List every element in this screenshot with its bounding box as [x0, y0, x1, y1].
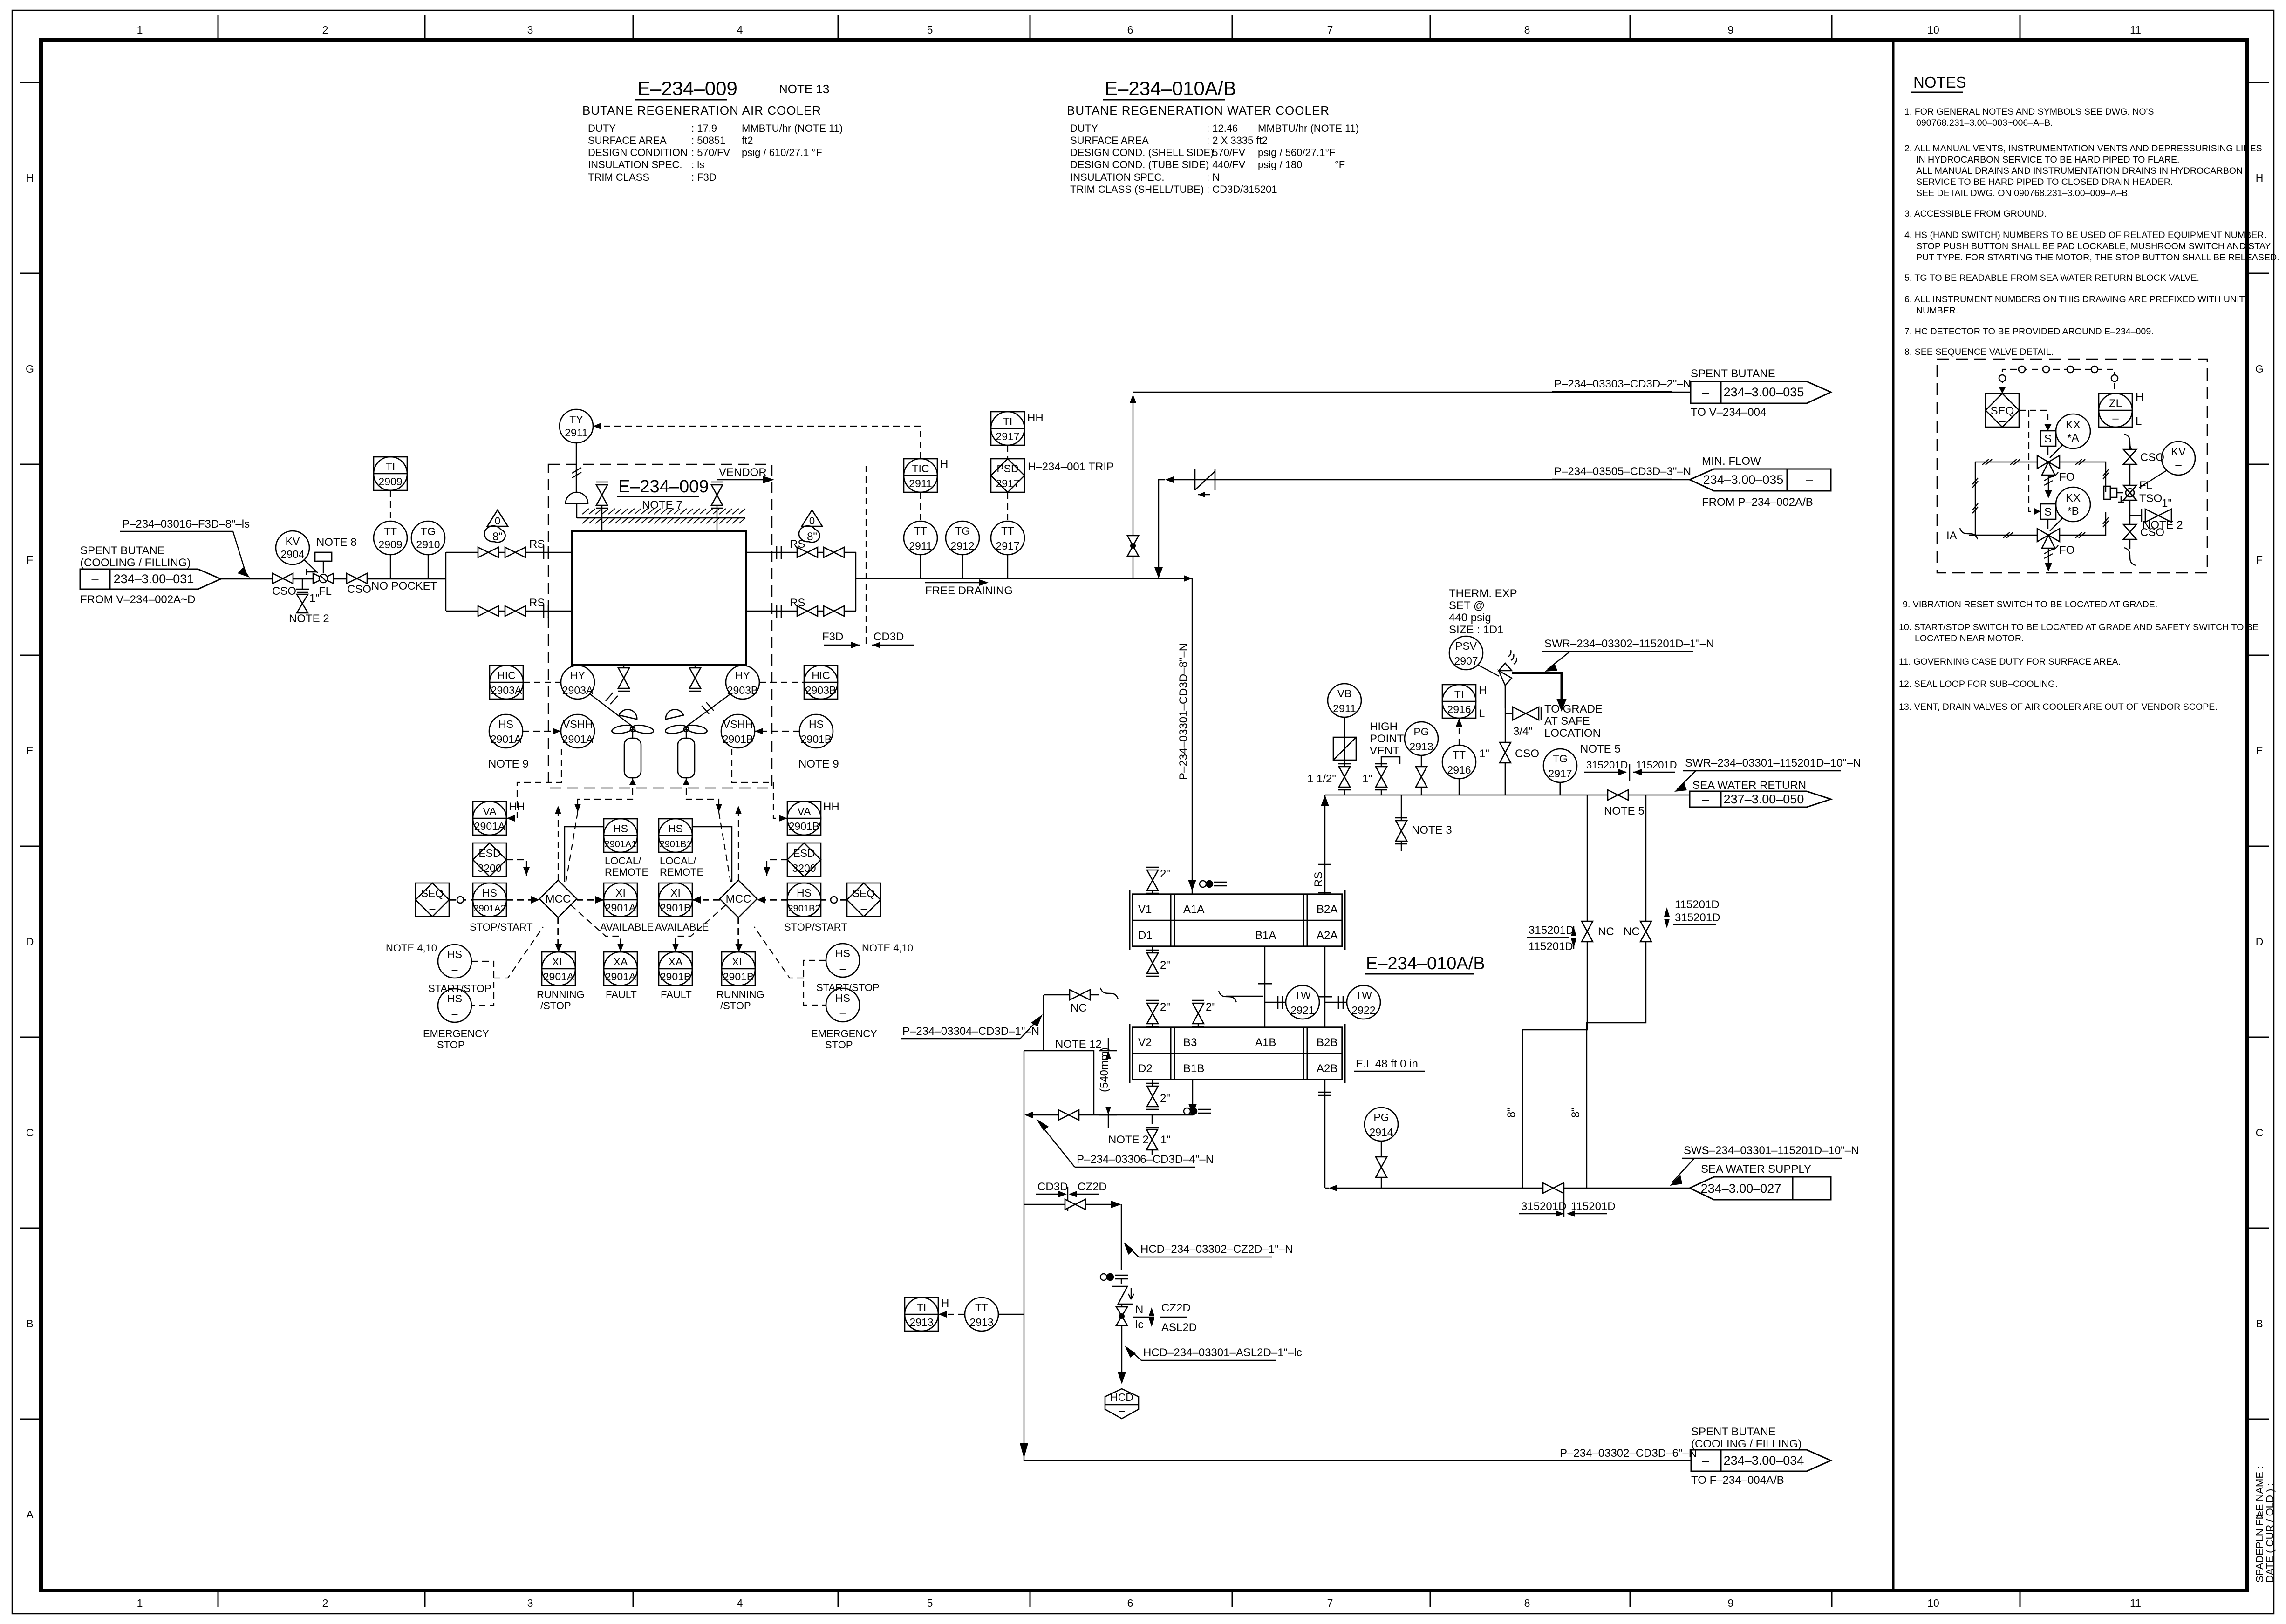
svg-text:TSO: TSO — [2139, 492, 2162, 505]
svg-text:5: 5 — [927, 24, 933, 36]
svg-text:2912: 2912 — [950, 540, 974, 552]
svg-text:psig / 610/27.1 °F: psig / 610/27.1 °F — [742, 147, 822, 158]
svg-text:2911: 2911 — [565, 427, 587, 439]
valve inlet bottom branch 2 — [505, 606, 525, 616]
RS break bottom branch — [529, 597, 548, 618]
svg-text:CSO: CSO — [2140, 526, 2164, 539]
svg-text:4: 4 — [737, 24, 743, 36]
wire drain header 4 inch — [1024, 1109, 1193, 1118]
svg-text:4. HS (HAND SWITCH) NUMBERS TO: 4. HS (HAND SWITCH) NUMBERS TO BE USED O… — [1904, 230, 2266, 240]
S solenoid B (detail) — [2029, 410, 2056, 519]
540mm dimension — [1098, 1038, 1117, 1128]
svg-text:2916: 2916 — [1447, 703, 1471, 715]
signal up from MCC right — [735, 806, 742, 880]
svg-text:VB: VB — [1337, 687, 1352, 700]
KX *A bubble (detail) — [2050, 414, 2090, 458]
fan A actuator dome — [619, 706, 639, 725]
signal TT to TI 2916 — [1456, 718, 1462, 745]
svg-text:2903B: 2903B — [805, 684, 837, 696]
svg-text:2901B: 2901B — [789, 820, 820, 832]
svg-text:NOTE 3: NOTE 3 — [1412, 824, 1452, 836]
S solenoid A (detail) — [2019, 410, 2056, 446]
svg-text:FAULT: FAULT — [606, 989, 637, 1000]
air cooler body rectangle — [572, 531, 746, 665]
svg-text:A1A: A1A — [1183, 903, 1204, 916]
svg-text:2: 2 — [322, 1597, 328, 1609]
vent valve left above cooler — [596, 482, 608, 531]
svg-text:PG: PG — [1373, 1111, 1389, 1123]
HIC-HY 2903A signal — [523, 682, 561, 683]
HCD hexagon — [1105, 1389, 1139, 1419]
svg-text:2": 2" — [1160, 1001, 1170, 1013]
label HCD-234-03302 — [1124, 1242, 1293, 1257]
svg-text:psig / 560/27.1°F: psig / 560/27.1°F — [1258, 147, 1336, 158]
svg-text:2901A: 2901A — [605, 971, 636, 983]
svg-text:3. ACCESSIBLE FROM GROUND.: 3. ACCESSIBLE FROM GROUND. — [1904, 209, 2047, 219]
TI 2917 indicator HH — [991, 412, 1044, 445]
1 inch drain valve NOTE 2 — [289, 579, 329, 625]
svg-text:RS: RS — [1312, 872, 1325, 887]
svg-text:(COOLING / FILLING): (COOLING / FILLING) — [1691, 1438, 1802, 1450]
svg-text:AVAILABLE: AVAILABLE — [600, 921, 654, 933]
SEQ logic box (detail) — [1986, 387, 2019, 428]
min flow check valve — [1174, 469, 1690, 497]
3-way valve B (detail) — [2037, 519, 2074, 557]
svg-text:THERM. EXP: THERM. EXP — [1449, 587, 1517, 600]
spec labels at NC left — [1527, 924, 1576, 953]
signal motor B to MCC — [686, 788, 731, 884]
svg-text:SET @: SET @ — [1449, 599, 1485, 612]
svg-text:237–3.00–050: 237–3.00–050 — [1724, 792, 1804, 806]
TIC 2911 controller — [904, 458, 948, 492]
sea water supply banner 234-3.00-027 — [1690, 1163, 1831, 1200]
svg-text:F: F — [2256, 554, 2263, 566]
VENDOR label arrow — [717, 466, 774, 483]
svg-text:SEE DETAIL DWG. ON 090768.231–: SEE DETAIL DWG. ON 090768.231–3.00–009–A… — [1916, 188, 2130, 198]
svg-text:PG: PG — [1413, 726, 1429, 738]
svg-text:NOTES: NOTES — [1913, 74, 1966, 91]
vent valve right above cooler — [711, 482, 723, 531]
svg-text:TRIM CLASS (SHELL/TUBE): TRIM CLASS (SHELL/TUBE) — [1070, 183, 1204, 195]
drain valve left below cooler — [618, 665, 630, 691]
svg-text:P–234–03302–CD3D–6"–N: P–234–03302–CD3D–6"–N — [1560, 1447, 1697, 1460]
signal VSHH to VA 2901B — [732, 749, 787, 822]
svg-text:6: 6 — [1127, 1597, 1133, 1609]
svg-text:HS: HS — [835, 947, 850, 959]
label P-234-03303 — [1552, 378, 1691, 392]
svg-text:2916: 2916 — [1447, 764, 1471, 776]
svg-text:VSHH: VSHH — [723, 718, 753, 730]
PSD 2917 logic box — [991, 459, 1114, 492]
svg-text:/STOP: /STOP — [540, 1000, 571, 1012]
signal HS 2901A1 to MCC left — [565, 827, 604, 882]
wire NC riser left — [1522, 795, 1587, 1188]
svg-text:XL: XL — [732, 956, 745, 968]
min flow banner 234-3.00-035 — [1690, 455, 1831, 509]
svg-text:2911: 2911 — [1333, 702, 1356, 714]
vendor dashed box — [548, 464, 772, 788]
svg-text:H: H — [941, 1297, 949, 1310]
column numbers bottom — [137, 1597, 2141, 1609]
XL 2901B box — [717, 952, 764, 1012]
svg-text:TO F–234–004A/B: TO F–234–004A/B — [1691, 1474, 1784, 1487]
svg-text:1: 1 — [137, 24, 143, 36]
svg-text:LOCATION: LOCATION — [1544, 727, 1601, 740]
svg-text:ft2: ft2 — [742, 135, 753, 146]
signal MCC to XI 2901A — [577, 896, 604, 904]
fan B propeller — [665, 724, 708, 738]
svg-text:B1B: B1B — [1183, 1062, 1204, 1075]
ESD 3200 box left — [473, 843, 506, 877]
svg-text:KX: KX — [2066, 492, 2081, 504]
svg-text:440 psig: 440 psig — [1449, 612, 1491, 624]
valve 1 1/2 inch branch — [1307, 717, 1351, 795]
svg-text:9. VIBRATION RESET SWITCH TO B: 9. VIBRATION RESET SWITCH TO BE LOCATED … — [1903, 599, 2157, 610]
svg-text:ESD: ESD — [478, 847, 500, 859]
svg-text:2909: 2909 — [378, 476, 402, 488]
svg-text:7: 7 — [1327, 1597, 1333, 1609]
svg-text:RS: RS — [529, 538, 545, 550]
E-234-009 equipment label — [617, 477, 709, 511]
svg-text:8": 8" — [1505, 1108, 1518, 1118]
svg-text:LOCATED NEAR MOTOR.: LOCATED NEAR MOTOR. — [1915, 633, 2024, 644]
valve 2" B3 vent — [1192, 1000, 1216, 1027]
svg-text:8: 8 — [1524, 1597, 1530, 1609]
svg-text:2917: 2917 — [1548, 768, 1572, 780]
svg-text:1": 1" — [2162, 497, 2172, 510]
break outlet bottom — [777, 605, 781, 618]
svg-text:TIC: TIC — [912, 462, 929, 475]
svg-text:(COOLING / FILLING): (COOLING / FILLING) — [80, 557, 191, 569]
svg-text:B3: B3 — [1183, 1036, 1197, 1049]
svg-text:TW: TW — [1294, 989, 1311, 1001]
HS 2901B bubble — [798, 714, 839, 770]
N CZ2D lc ASL2D labels — [1133, 1302, 1197, 1334]
label P-234-03306 — [1036, 1119, 1214, 1167]
svg-text:HIGH: HIGH — [1370, 720, 1398, 733]
wire B1A to A1B connector — [1258, 946, 1272, 1027]
spec break 315201D 115201D on return — [1584, 759, 1677, 781]
svg-text:P–234–03306–CD3D–4"–N: P–234–03306–CD3D–4"–N — [1077, 1153, 1214, 1166]
svg-text:SEA WATER SUPPLY: SEA WATER SUPPLY — [1701, 1163, 1811, 1176]
svg-text:XA: XA — [669, 956, 683, 968]
wire spent butane overhead line — [1133, 392, 1691, 393]
svg-text:–: – — [1999, 415, 2006, 428]
svg-text:F3D: F3D — [822, 631, 843, 643]
ZL light box (detail) — [2099, 391, 2143, 428]
valve PG 2913 root — [1416, 755, 1427, 795]
svg-text:9: 9 — [1728, 24, 1734, 36]
svg-text:: ls: : ls — [691, 159, 704, 170]
svg-text:HS: HS — [797, 887, 812, 899]
svg-text:HY: HY — [735, 669, 750, 681]
svg-text:MCC: MCC — [546, 893, 571, 905]
svg-text:NO POCKET: NO POCKET — [371, 580, 437, 592]
valve B vent stub (detail) — [2044, 548, 2053, 571]
svg-text:H: H — [940, 458, 948, 470]
svg-text:FAULT: FAULT — [661, 989, 692, 1000]
svg-text:F: F — [27, 554, 33, 566]
svg-text:NOTE 4,10: NOTE 4,10 — [862, 942, 913, 954]
svg-text:115201D: 115201D — [1529, 940, 1573, 953]
svg-text:HS: HS — [447, 948, 462, 960]
svg-text:HS: HS — [835, 992, 850, 1004]
svg-text:G: G — [2255, 363, 2264, 375]
FL TSO sequence valve (detail) — [2123, 479, 2162, 505]
svg-text:/STOP: /STOP — [720, 1000, 751, 1012]
fan B motor capsule — [678, 738, 695, 785]
column tick marks top/bottom — [218, 15, 2020, 1607]
svg-text:G: G — [26, 363, 34, 375]
svg-text:TG: TG — [1553, 753, 1568, 765]
arrow into HCD — [1118, 1372, 1126, 1384]
svg-text:2903A: 2903A — [491, 684, 522, 696]
svg-text:KX: KX — [2066, 419, 2081, 431]
KX *B bubble (detail) — [2050, 487, 2090, 531]
svg-text:: 570/FV: : 570/FV — [1207, 147, 1245, 158]
RS break on B2A riser — [1312, 864, 1331, 893]
svg-text:E–234–010A/B: E–234–010A/B — [1105, 77, 1236, 99]
svg-text:TW: TW — [1355, 989, 1372, 1001]
svg-text:HCD: HCD — [1110, 1391, 1133, 1403]
svg-text:TY: TY — [569, 414, 583, 426]
svg-text:: 440/FV: : 440/FV — [1207, 159, 1245, 170]
TI-TT 2909 signal wire — [390, 490, 391, 521]
VA 2901B alarm box — [787, 801, 839, 835]
svg-text:D: D — [26, 936, 34, 948]
TG 2912 bubble — [946, 521, 979, 578]
IA supply label (detail) — [1946, 528, 1978, 542]
svg-text:STOP PUSH BUTTON SHALL BE PAD: STOP PUSH BUTTON SHALL BE PAD LOCKABLE, … — [1916, 241, 2271, 251]
svg-text:E–234–009: E–234–009 — [618, 477, 709, 496]
svg-text:SURFACE AREA: SURFACE AREA — [588, 135, 667, 146]
1 inch NOTE 2 stub valve (detail) — [2130, 497, 2183, 531]
svg-text:H: H — [2256, 172, 2264, 184]
svg-text:: CD3D/315201: : CD3D/315201 — [1207, 183, 1277, 195]
wire NC branch to seal loop — [1043, 995, 1044, 1051]
svg-text:NOTE 2: NOTE 2 — [289, 612, 329, 625]
TY actuator dome — [566, 492, 588, 518]
HY 2903A bubble — [561, 666, 594, 699]
valve PG 2914 root — [1376, 1141, 1387, 1188]
svg-text:10: 10 — [1927, 1597, 1939, 1609]
min flow arrow into riser — [1154, 476, 1174, 578]
VSHH 2901B bubble — [721, 714, 755, 748]
inlet banner 234-3.00-031 — [80, 544, 221, 606]
MCC diamond left — [539, 880, 577, 917]
svg-text:SIZE : 1D1: SIZE : 1D1 — [1449, 624, 1503, 636]
row letters right — [2255, 172, 2264, 1521]
HIC 2903A indicator — [490, 666, 523, 699]
CSO valve top (detail) — [2123, 449, 2164, 464]
SEQ-HS wire node right — [821, 897, 847, 903]
svg-text:DESIGN COND. (SHELL SIDE): DESIGN COND. (SHELL SIDE) — [1070, 147, 1214, 158]
svg-text:XA: XA — [614, 956, 628, 968]
svg-text:2901A: 2901A — [605, 902, 636, 914]
valve CSO inlet 2 — [347, 573, 371, 596]
svg-text:TI: TI — [1454, 688, 1464, 700]
svg-text:3/4": 3/4" — [1513, 725, 1533, 738]
sea water return banner 237-3.00-050 — [1690, 779, 1831, 807]
CD3D CZ2D spec break — [1036, 1181, 1107, 1211]
svg-text:N: N — [1135, 1304, 1143, 1316]
svg-text:HS: HS — [447, 992, 462, 1005]
svg-text:IA: IA — [1946, 530, 1957, 542]
valve inlet bottom branch 1 — [478, 606, 498, 616]
svg-text:PUT TYPE. FOR STARTING THE MOT: PUT TYPE. FOR STARTING THE MOTOR, THE ST… — [1916, 252, 2279, 263]
wire inlet header split — [446, 552, 572, 611]
valve NC drain — [1044, 988, 1118, 1014]
svg-text:2913: 2913 — [1409, 741, 1433, 753]
svg-text:FROM V–234–002A~D: FROM V–234–002A~D — [80, 593, 195, 606]
svg-text:C: C — [26, 1127, 34, 1139]
relief triangle 0 left — [487, 510, 508, 527]
svg-text:D1: D1 — [1138, 929, 1153, 942]
PG 2913 bubble — [1405, 722, 1438, 755]
TW 2922 bubble — [1325, 985, 1380, 1019]
instrument air tubing A loop (detail) — [1972, 459, 2109, 538]
spec list E-234-010A/B — [1070, 122, 1359, 195]
svg-text:XL: XL — [552, 956, 565, 968]
svg-text:SEQ: SEQ — [421, 887, 444, 899]
svg-text:A1B: A1B — [1255, 1036, 1276, 1049]
TY stem down with break — [572, 443, 581, 497]
column numbers top — [137, 24, 2141, 36]
svg-text:2: 2 — [322, 24, 328, 36]
svg-text:2901B: 2901B — [723, 733, 754, 745]
svg-text:2913: 2913 — [969, 1316, 993, 1328]
svg-text:KV: KV — [2171, 446, 2186, 458]
valve CZ2D ASL2D with dot — [1116, 1304, 1127, 1372]
wire outlet top branch — [746, 552, 856, 611]
svg-text:SWR–234–03302–115201D–1"–N: SWR–234–03302–115201D–1"–N — [1544, 638, 1714, 650]
svg-text:L: L — [1479, 707, 1485, 720]
svg-text:NOTE 12: NOTE 12 — [1055, 1038, 1102, 1051]
TG 2910 bubble — [411, 521, 445, 579]
svg-text:8": 8" — [807, 530, 817, 543]
svg-text:E–234–010A/B: E–234–010A/B — [1366, 954, 1485, 973]
svg-text:NOTE 9: NOTE 9 — [798, 758, 839, 770]
svg-text:L: L — [2136, 415, 2142, 428]
svg-text:EMERGENCY: EMERGENCY — [423, 1028, 489, 1040]
svg-text:TT: TT — [384, 525, 397, 537]
PG 2914 bubble — [1365, 1108, 1398, 1141]
svg-text:2901A: 2901A — [474, 820, 505, 832]
exchanger A shell — [1130, 890, 1345, 950]
valve A vent stub (detail) — [2044, 475, 2053, 498]
wire main drain bottom — [1020, 1443, 1691, 1461]
svg-text:RUNNING: RUNNING — [717, 989, 764, 1000]
svg-text:NC: NC — [1598, 925, 1614, 938]
SEQ box left — [416, 883, 449, 917]
svg-text:–: – — [1702, 1454, 1709, 1468]
svg-text:12. SEAL LOOP FOR SUB–COOLING.: 12. SEAL LOOP FOR SUB–COOLING. — [1899, 679, 2058, 689]
svg-text:STOP: STOP — [825, 1039, 853, 1051]
svg-text:FO: FO — [2059, 471, 2074, 483]
TT 2913 bubble — [965, 1298, 1024, 1331]
TT 2911 bubble — [904, 521, 937, 578]
svg-text:7: 7 — [1327, 24, 1333, 36]
A1A inlet bleed — [1192, 881, 1227, 894]
TT 2917 bubble — [991, 521, 1024, 578]
MCC diamond right — [720, 880, 757, 917]
spent butane bottom banner 234-3.00-034 — [1691, 1426, 1831, 1487]
spent butane banner 234-3.00-035 — [1691, 367, 1831, 419]
PSV outlet thick line to grade — [1512, 673, 1567, 712]
HY 2903B drive line to fan B — [686, 694, 730, 727]
fin tube hatched strip — [577, 509, 745, 523]
svg-text:2903A: 2903A — [562, 684, 594, 696]
PSV angle valve — [1499, 650, 1516, 708]
svg-text:VA: VA — [798, 805, 812, 817]
HS start/stop A bubble — [386, 942, 491, 994]
svg-text:NOTE 4,10: NOTE 4,10 — [386, 942, 437, 954]
svg-text:D2: D2 — [1138, 1062, 1153, 1075]
XA 2901B box — [659, 952, 692, 1000]
svg-text:ZL: ZL — [2109, 397, 2122, 410]
HIC-HY 2903B signal — [759, 682, 804, 683]
svg-text:ESD: ESD — [793, 847, 815, 859]
svg-text:2901A2: 2901A2 — [474, 904, 506, 914]
svg-text:VSHH: VSHH — [563, 718, 593, 730]
valve NC right — [1624, 921, 1651, 942]
svg-text:SWS–234–03301–115201D–10"–N: SWS–234–03301–115201D–10"–N — [1684, 1144, 1859, 1157]
svg-text:STOP/START: STOP/START — [470, 921, 533, 933]
notes 1-8 text — [1904, 107, 2279, 357]
svg-text:2914: 2914 — [1369, 1126, 1393, 1138]
svg-text:STOP: STOP — [437, 1039, 465, 1051]
svg-text:HCD–234–03301–ASL2D–1"–lc: HCD–234–03301–ASL2D–1"–lc — [1143, 1346, 1302, 1359]
svg-text:6: 6 — [1127, 24, 1133, 36]
XI 2901B box — [655, 883, 709, 933]
notes column separator — [1892, 40, 1895, 1590]
fan A propeller — [611, 724, 654, 738]
svg-text:11. GOVERNING CASE DUTY FOR SU: 11. GOVERNING CASE DUTY FOR SURFACE AREA… — [1899, 657, 2121, 667]
svg-text:2901B: 2901B — [660, 902, 691, 914]
svg-text:: 50851: : 50851 — [691, 135, 725, 146]
svg-text:psig / 180: psig / 180 — [1258, 159, 1302, 170]
svg-text:D: D — [2256, 936, 2264, 948]
HS 2901A bubble — [488, 714, 529, 770]
E-234-010A/B equipment label — [1365, 954, 1485, 974]
svg-text:AT SAFE: AT SAFE — [1544, 715, 1590, 727]
svg-text:5. TG TO BE READABLE FROM SEA: 5. TG TO BE READABLE FROM SEA WATER RETU… — [1904, 273, 2199, 283]
exchanger A nozzle labels — [1138, 903, 1337, 942]
signal TI 2917 to PSD — [1007, 445, 1008, 459]
svg-text:SPENT BUTANE: SPENT BUTANE — [1691, 1426, 1776, 1438]
TT 2909 bubble — [374, 521, 407, 579]
svg-text:NOTE 5: NOTE 5 — [1604, 805, 1645, 817]
svg-text:B: B — [2256, 1318, 2263, 1330]
TY 2911 bubble — [560, 409, 593, 443]
svg-text:H–234–001 TRIP: H–234–001 TRIP — [1028, 461, 1114, 473]
svg-text:2921: 2921 — [1290, 1004, 1314, 1016]
svg-text:SPENT BUTANE: SPENT BUTANE — [1691, 367, 1775, 380]
svg-text:8. SEE SEQUENCE VALVE DETAIL.: 8. SEE SEQUENCE VALVE DETAIL. — [1904, 347, 2054, 357]
svg-text:HS: HS — [498, 718, 513, 730]
svg-text:–: – — [861, 902, 867, 914]
svg-text:8: 8 — [1524, 24, 1530, 36]
svg-text:315201D: 315201D — [1675, 911, 1720, 924]
svg-text:P–234–03301–CD3D–8"–N: P–234–03301–CD3D–8"–N — [1177, 643, 1190, 780]
svg-text:MMBTU/hr (NOTE 11): MMBTU/hr (NOTE 11) — [742, 122, 843, 134]
TI 2916 indicator — [1442, 684, 1487, 720]
svg-text:SEA WATER RETURN: SEA WATER RETURN — [1692, 779, 1806, 792]
svg-text:HS: HS — [809, 718, 824, 730]
svg-text:CSO: CSO — [347, 583, 371, 596]
svg-text:6. ALL INSTRUMENT NUMBERS ON T: 6. ALL INSTRUMENT NUMBERS ON THIS DRAWIN… — [1904, 294, 2245, 305]
svg-text:HS: HS — [668, 822, 683, 835]
